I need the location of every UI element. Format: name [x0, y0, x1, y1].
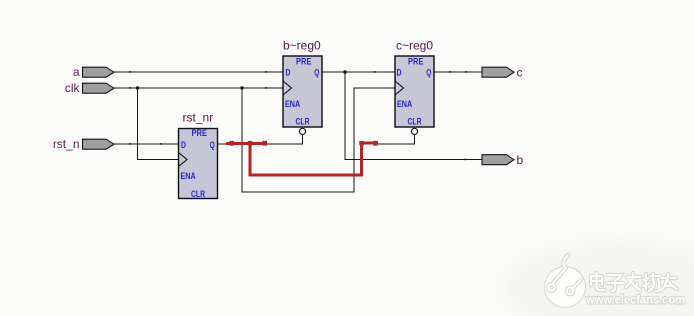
svg-text:ENA: ENA [181, 171, 197, 181]
svg-text:CLR: CLR [296, 116, 310, 126]
D flip-flop rst_nr [179, 111, 218, 199]
watermark chinese text 电子发烧友 [591, 273, 677, 291]
output pin b [482, 153, 524, 167]
svg-text:Q: Q [426, 68, 431, 79]
red highlighted net under-route to c~reg0 CLR [250, 143, 378, 175]
svg-text:PRE: PRE [192, 128, 208, 138]
junction clk-rst_nr [136, 86, 139, 89]
red tick 3 [373, 141, 378, 146]
svg-text:www.elecfans.com: www.elecfans.com [585, 293, 685, 307]
wire c~reg0 Q to output c [434, 71, 482, 73]
wire rst_nr Q to b~reg0 CLR bubble [218, 135, 303, 144]
svg-text:b~reg0: b~reg0 [283, 39, 321, 53]
wire rst_n to rst_nr D [114, 143, 179, 145]
b~reg0 CLR bubble [299, 128, 305, 134]
junction b Q branch [343, 70, 346, 73]
wire speck marks [129, 71, 467, 160]
svg-text:PRE: PRE [296, 57, 312, 67]
red corner blob 1 [248, 141, 252, 145]
svg-text:D: D [181, 140, 186, 151]
input pin a [73, 65, 114, 79]
svg-text:c: c [517, 66, 523, 80]
svg-text:a: a [73, 65, 80, 79]
watermark background tint [502, 244, 694, 316]
junction clk-croute [240, 86, 243, 89]
svg-text:rst_n: rst_n [53, 137, 80, 151]
wire c~reg0 CLR bubble drop [378, 135, 415, 144]
red tick 1 [230, 141, 235, 146]
wire clk branch to rst_nr clock [138, 88, 179, 160]
wire clk to b~reg0 clock [114, 87, 283, 89]
red highlighted net rst_nr Q overlay [226, 142, 267, 145]
red tick 2 [263, 141, 268, 146]
svg-text:b: b [517, 153, 524, 167]
svg-text:D: D [286, 68, 291, 79]
svg-text:ENA: ENA [285, 99, 301, 109]
svg-text:c~reg0: c~reg0 [396, 39, 433, 53]
input pin clk [65, 81, 114, 95]
wire b~reg0 Q branch to output b [345, 72, 482, 160]
D flip-flop c~reg0 [395, 39, 434, 135]
svg-text:clk: clk [65, 81, 81, 95]
wire a to b~reg0 D [114, 71, 283, 73]
svg-text:Q: Q [314, 68, 319, 79]
svg-text:Q: Q [210, 140, 215, 151]
D flip-flop b~reg0 [283, 39, 322, 135]
red corner blob 2 [359, 141, 363, 145]
wire b~reg0 Q to c~reg0 D [322, 71, 395, 73]
svg-text:PRE: PRE [408, 57, 424, 67]
c~reg0 CLR bubble [411, 128, 417, 134]
input pin rst_n [53, 137, 114, 151]
svg-text:rst_nr: rst_nr [183, 111, 214, 125]
svg-text:CLR: CLR [191, 189, 205, 199]
svg-text:CLR: CLR [408, 116, 422, 126]
svg-text:ENA: ENA [397, 99, 413, 109]
svg-text:D: D [397, 68, 402, 79]
watermark logo circle [545, 255, 586, 308]
wire clk under-route to c~reg0 clock [242, 88, 395, 192]
output pin c [482, 66, 523, 80]
